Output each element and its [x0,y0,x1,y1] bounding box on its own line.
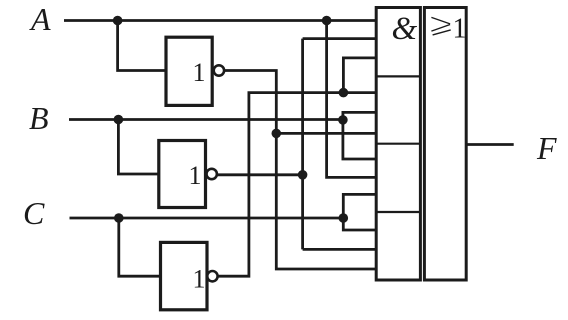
svg-text:A: A [29,1,51,37]
wire NOT-A from U1 bubble [224,71,377,270]
AND block U4 [376,8,420,281]
svg-text:1: 1 [453,13,467,44]
wire C input horizontal [70,217,344,220]
wire B down to section3 stub [343,120,377,159]
node NOT-C junction dot [339,88,349,98]
OR block U5 [424,8,466,281]
wire F output [466,143,514,146]
inverter U1 box [166,37,212,105]
svg-text:&: & [392,11,418,47]
node C junction dot right [339,213,349,223]
svg-text:1: 1 [189,161,202,190]
wire C down to section4 stub [343,218,377,230]
inverter U2 box [159,141,206,208]
node NOT-B junction dot [298,170,308,180]
inverter U3 bubble [207,271,217,281]
svg-text:C: C [23,195,45,231]
wire B up to section2 stub [343,112,377,120]
svg-text:B: B [29,100,49,136]
node NOT-A junction dot [272,129,282,139]
AND block divider 1 [377,75,420,77]
inverter U2 bubble [207,169,217,179]
wire C drop to inverter U3 [119,218,161,276]
node B junction dot right [338,115,348,125]
wire B input horizontal [69,118,343,121]
wire A input horizontal [64,19,377,22]
node B junction dot left [114,115,124,125]
wire A drop to inverter U1 [118,21,166,71]
wire A vertical to section-3 stub [327,21,377,178]
wire NOT-A stub section2 [276,132,377,135]
svg-text:1: 1 [193,58,206,87]
wire NOT-B from U2 bubble [217,173,303,176]
AND block divider 2 [377,143,420,145]
svg-text:1: 1 [193,265,206,294]
svg-text:F: F [536,130,557,166]
inverter U1 bubble [214,65,224,75]
wire B drop to inverter U2 [118,120,158,175]
wire NOT-C up to section1 stub [343,58,377,93]
node C junction dot left [114,213,124,223]
wire C up to section3 stub [343,194,377,218]
inverter U3 box [161,242,208,309]
wire NOT-B vertical [301,39,304,250]
wire NOT-B stub section4 [303,248,377,251]
wire NOT-B stub section1 [303,37,377,40]
node A junction dot right [322,16,332,26]
node A junction dot left [113,16,123,26]
AND block divider 3 [377,211,420,213]
wire NOT-C from U3 bubble [218,93,377,277]
OR block label GE symbol [431,17,450,35]
